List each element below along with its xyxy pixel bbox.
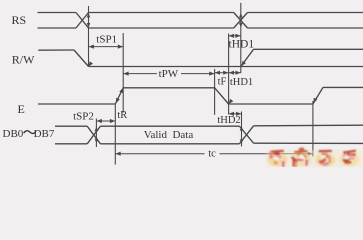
svg-text:DB0: DB0 xyxy=(3,128,24,140)
svg-text:E: E xyxy=(18,102,25,116)
svg-text:tHD1: tHD1 xyxy=(230,77,253,88)
svg-text:tHD1: tHD1 xyxy=(229,39,255,51)
svg-text:Valid Data: Valid Data xyxy=(144,129,194,141)
svg-text:tPW: tPW xyxy=(159,68,179,80)
svg-text:tSP2: tSP2 xyxy=(73,110,94,122)
svg-text:tSP1: tSP1 xyxy=(96,34,117,46)
svg-text:tc: tc xyxy=(208,148,216,159)
svg-text:tF: tF xyxy=(218,76,227,87)
svg-text:tHD2: tHD2 xyxy=(217,115,240,126)
svg-text:R/W: R/W xyxy=(12,53,35,67)
svg-text:DB7: DB7 xyxy=(34,128,55,140)
svg-text:RS: RS xyxy=(12,13,27,27)
svg-text:tR: tR xyxy=(117,110,127,121)
